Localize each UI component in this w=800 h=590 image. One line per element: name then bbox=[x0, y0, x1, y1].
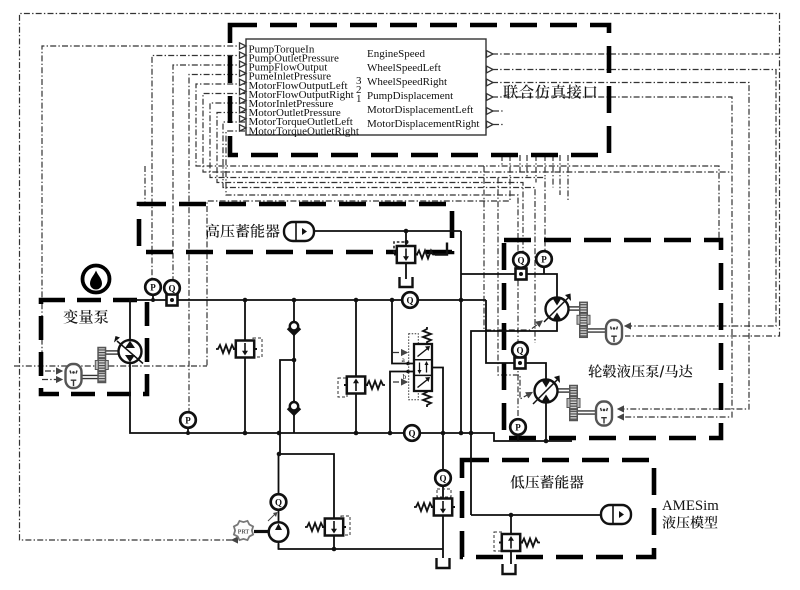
svg-text:PumpDisplacement: PumpDisplacement bbox=[367, 90, 453, 102]
svg-text:AMESim: AMESim bbox=[662, 498, 719, 514]
svg-text:WheelSpeedRight: WheelSpeedRight bbox=[367, 76, 447, 88]
svg-text:b: b bbox=[403, 372, 407, 381]
svg-text:MotorTorqueOutletRight: MotorTorqueOutletRight bbox=[249, 125, 359, 137]
svg-text:EngineSpeed: EngineSpeed bbox=[367, 48, 426, 60]
svg-text:MotorDisplacementRight: MotorDisplacementRight bbox=[367, 118, 479, 130]
svg-text:MotorDisplacementLeft: MotorDisplacementLeft bbox=[367, 104, 473, 116]
svg-text:WheelSpeedLeft: WheelSpeedLeft bbox=[367, 62, 441, 74]
svg-text:PRT: PRT bbox=[238, 529, 250, 536]
svg-text:1: 1 bbox=[356, 93, 362, 105]
